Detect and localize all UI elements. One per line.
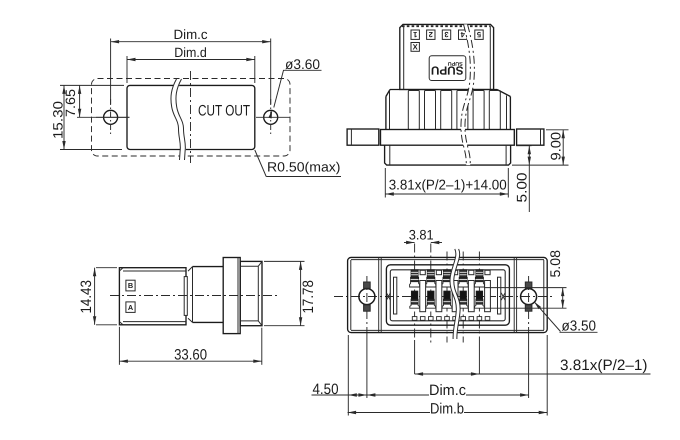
view4 separator wall 3: [452, 281, 458, 312]
dimension 9.00 view2: [546, 129, 569, 131]
label R0.50(max) leader: [255, 150, 266, 177]
view2 break line left: [461, 24, 470, 165]
view4 pin column 5 top: [476, 270, 483, 278]
view4 separator wall 2: [436, 281, 442, 312]
view1 cutout vertical centerline: [190, 71, 192, 163]
view3 slot at body right: [184, 277, 187, 316]
svg-text:B: B: [128, 281, 133, 290]
view2 upper housing body: [400, 24, 494, 89]
view2 terminal number boxes 1-5: [411, 30, 419, 39]
view4 cap 2: [436, 270, 441, 274]
view4 pin column 3 top: [444, 270, 451, 278]
dimension 3.81: [404, 242, 415, 244]
view4 pin column 1 top: [411, 270, 418, 278]
view2 top edge knurl: [402, 25, 462, 27]
dimension 14.43: [96, 267, 117, 269]
svg-text:33.60: 33.60: [174, 346, 207, 363]
dimension 4.50 and Dim.c line: [347, 335, 349, 416]
view4 hole right: [521, 289, 537, 305]
view2 upper housing inner walls: [403, 26, 405, 90]
svg-text:Dim.d: Dim.d: [174, 45, 207, 60]
dimension Dim.d view1: [126, 56, 128, 83]
svg-text:14.43: 14.43: [78, 280, 95, 314]
dimension 3.81x(P/2-1): [415, 373, 651, 375]
svg-text:3: 3: [444, 30, 448, 39]
view3 main body: [119, 268, 186, 325]
view2 logo box: [429, 56, 466, 81]
view4 hole left: [359, 289, 375, 305]
view4 pin column 1 bottom: [411, 291, 417, 299]
view4 hole right keys: [525, 282, 532, 288]
view3 centerline: [110, 295, 277, 297]
view4 cap 5: [485, 270, 490, 274]
view2 break line right: [465, 24, 474, 165]
view4 hole centerline right: [528, 276, 530, 336]
svg-text:5.00: 5.00: [513, 172, 529, 202]
view4 pin column 3 bottom: [444, 291, 450, 299]
dimension 3.81x(P/2-1)+14.00: [384, 168, 386, 198]
view2 break band: [461, 24, 474, 165]
view1 break line right: [176, 79, 185, 160]
dimension 33.60: [118, 327, 120, 365]
view2 comb slots: [408, 91, 419, 130]
svg-text:A: A: [128, 303, 134, 312]
view2 lower body: [385, 145, 511, 165]
view4 body inner edges: [351, 259, 544, 261]
view3 flange: [223, 258, 240, 334]
svg-text:17.78: 17.78: [300, 280, 317, 314]
view3 body inner edges: [123, 270, 186, 272]
view2 right wing: [517, 129, 544, 145]
view2 left wing: [347, 129, 379, 145]
view4 X mark right: [501, 293, 505, 300]
dimension 17.78: [264, 260, 305, 262]
view2 X keying box: [411, 43, 419, 52]
svg-text:3.81x(P/2–1)+14.00: 3.81x(P/2–1)+14.00: [389, 178, 507, 194]
view4 pin column 4 bottom: [460, 291, 466, 299]
dimension 5.00 view2: [516, 145, 532, 147]
view4 ear divider right: [516, 257, 518, 332]
view4 shroud outer: [386, 265, 509, 325]
view4 break line right: [454, 249, 460, 339]
view4 pin centerlines: [414, 244, 416, 341]
view4 hole centerline left: [366, 276, 368, 336]
view4 keyway slot left: [394, 277, 397, 314]
svg-text:SUPU: SUPU: [431, 63, 464, 77]
svg-text:R0.50(max): R0.50(max): [267, 159, 341, 174]
view4 cap 4: [469, 270, 474, 274]
view4 shroud inner: [390, 270, 505, 321]
view4 horizontal centerline: [334, 296, 553, 298]
svg-text:X: X: [413, 42, 418, 51]
dimension Dim.c view1: [110, 39, 112, 105]
label diameter 3.60 leader: [283, 69, 322, 71]
svg-text:Dim.b: Dim.b: [430, 400, 464, 417]
svg-text:Dim.c: Dim.c: [174, 27, 208, 42]
view1 break band: [171, 79, 186, 160]
svg-text:9.00: 9.00: [547, 132, 563, 161]
view4 bottom nubs: [412, 317, 417, 321]
view1 hole right: [264, 110, 278, 124]
view4 outer body: [348, 257, 548, 332]
view4 hole left keys: [364, 282, 371, 288]
view2 flange bar: [381, 130, 515, 146]
dimension 15.30 view1: [60, 84, 124, 86]
dimension Dim.b: [546, 335, 548, 416]
svg-text:3.81x(P/2–1): 3.81x(P/2–1): [560, 357, 648, 374]
view4 pin column 4 top: [460, 270, 467, 278]
view4 cap 1: [420, 270, 425, 274]
view4 pin column 5 bottom: [476, 291, 482, 299]
view4 ear divider left: [378, 257, 380, 332]
view3 A box: [126, 302, 135, 313]
svg-text:Dim.c: Dim.c: [429, 382, 466, 399]
view1 panel dashed outline: [92, 79, 291, 157]
view4 break line left: [450, 249, 456, 339]
view1 hole right cross lines: [256, 116, 290, 118]
svg-text:7.65: 7.65: [63, 89, 78, 117]
view4 keyway slot right: [498, 277, 501, 314]
view1 hole left: [104, 110, 118, 124]
view3 middle section: [193, 266, 224, 268]
dimension 5.08: [484, 287, 567, 289]
view4 break band: [450, 249, 460, 339]
view4 pin column 2 top: [427, 270, 434, 278]
svg-text:CUT OUT: CUT OUT: [198, 102, 250, 119]
view3 plug inner edges: [240, 265, 258, 267]
view3 B box: [126, 280, 135, 291]
svg-text:2: 2: [429, 30, 433, 39]
label diameter 3.50 leader: [534, 302, 560, 332]
view1 cut-out rectangle: [127, 85, 255, 149]
view2 comb section outline: [390, 89, 497, 91]
svg-text:3.81: 3.81: [409, 227, 434, 242]
view4 X mark left: [387, 293, 391, 300]
view1 hole left cross lines: [96, 116, 130, 118]
svg-text:ø3.50: ø3.50: [562, 318, 597, 334]
view4 separator wall 5: [485, 281, 491, 312]
view1 break line left: [171, 79, 180, 160]
dimension 7.65 view1: [77, 116, 130, 118]
view4 cap 3: [453, 270, 458, 274]
view4 separator wall 4: [468, 281, 474, 312]
view4 separator wall 1: [420, 281, 426, 312]
svg-text:4.50: 4.50: [313, 381, 339, 398]
view4 pin column 2 bottom: [428, 291, 434, 299]
svg-text:ø3.60: ø3.60: [285, 56, 320, 72]
view3 plug section: [240, 261, 262, 325]
svg-text:5.08: 5.08: [547, 250, 563, 278]
